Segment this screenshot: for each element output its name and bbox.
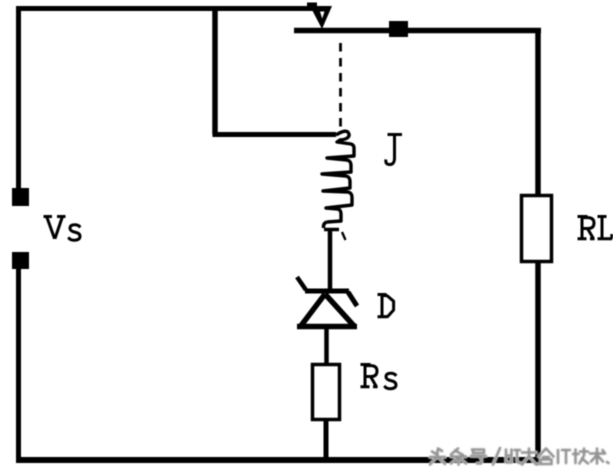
source Vs bottom terminal bbox=[12, 252, 29, 269]
wire Rs to bottom bbox=[324, 419, 329, 461]
wire right vertical upper bbox=[535, 28, 541, 196]
zener right tick bbox=[348, 292, 357, 306]
label Vs bbox=[44, 217, 81, 241]
contact terminal square bbox=[389, 21, 408, 37]
wire top horizontal bbox=[16, 6, 330, 11]
wire left vertical lower bbox=[16, 268, 21, 460]
wire right vertical lower bbox=[535, 261, 541, 461]
mechanical link dashed line bbox=[339, 43, 342, 130]
wire drop vertical to coil bbox=[212, 8, 218, 135]
wire horizontal to coil bbox=[213, 132, 337, 137]
resistor RL bbox=[522, 196, 552, 262]
label J bbox=[386, 135, 402, 165]
resistor Rs bbox=[313, 365, 340, 420]
wire diode to Rs bbox=[324, 327, 329, 365]
wire bottom horizontal bbox=[16, 457, 540, 463]
switch arrow contact bbox=[310, 6, 332, 29]
zener diode D cathode bar bbox=[305, 289, 349, 294]
label RL bbox=[578, 217, 613, 239]
label Rs bbox=[361, 365, 397, 389]
label D bbox=[378, 295, 394, 317]
switch contact line bbox=[294, 28, 541, 34]
watermark glow 头条号/卧龙会IT技术 bbox=[430, 448, 609, 465]
watermark ink bbox=[430, 448, 609, 465]
wire left vertical upper bbox=[16, 6, 21, 190]
coil bottom stub bbox=[323, 222, 339, 230]
coil stray dash bbox=[342, 232, 346, 240]
diode triangle bbox=[297, 294, 357, 327]
zener left tick bbox=[297, 277, 306, 290]
relay coil J bbox=[322, 131, 354, 222]
source Vs top terminal bbox=[12, 188, 29, 206]
wire coil to diode bbox=[328, 229, 333, 290]
